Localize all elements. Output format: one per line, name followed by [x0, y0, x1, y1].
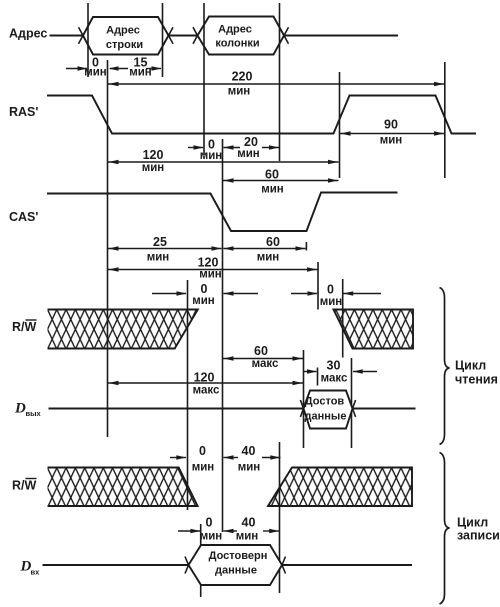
wire address mid	[169, 35, 198, 37]
reference line CAS fall	[222, 139, 224, 532]
svg-text:Адрес: Адрес	[9, 27, 47, 41]
svg-text:мин: мин	[84, 67, 107, 79]
svg-text:220: 220	[232, 70, 253, 84]
reference line dout end	[351, 358, 353, 448]
wire address lead	[50, 35, 84, 37]
svg-text:мин: мин	[200, 150, 223, 162]
reference line rw band2	[342, 279, 344, 358]
dimension 0 мин top	[66, 56, 107, 79]
RW write band2	[268, 468, 412, 507]
label Цикл записи	[457, 516, 500, 543]
svg-text:0: 0	[327, 283, 334, 297]
svg-text:вх: вх	[31, 568, 41, 577]
svg-text:R/W: R/W	[12, 479, 37, 493]
wire dout right	[353, 408, 416, 410]
svg-text:записи: записи	[457, 529, 500, 543]
label Цикл чтения	[455, 359, 498, 387]
svg-text:мин: мин	[199, 269, 222, 281]
svg-text:чтения: чтения	[455, 373, 498, 387]
svg-text:0: 0	[206, 516, 213, 530]
dimension 60 мин upper	[223, 168, 339, 196]
waveform RW write label	[12, 479, 37, 493]
data hexagon Достов данные	[300, 391, 355, 429]
svg-text:CAS': CAS'	[9, 210, 38, 224]
svg-text:Адрес: Адрес	[218, 24, 252, 36]
reference line RAS fall	[107, 60, 109, 437]
svg-text:60: 60	[254, 344, 268, 358]
svg-text:строки: строки	[106, 39, 143, 51]
dimension 220 мин	[108, 70, 445, 98]
svg-text:D: D	[14, 401, 26, 417]
svg-text:макс: макс	[252, 358, 279, 370]
svg-text:120: 120	[143, 148, 164, 162]
svg-text:мин: мин	[236, 531, 259, 543]
svg-text:90: 90	[384, 118, 398, 132]
brace read cycle	[440, 288, 450, 445]
svg-text:40: 40	[242, 516, 256, 530]
label D вх	[20, 559, 41, 577]
reference line din start	[200, 524, 202, 597]
tick line hexagon2 start	[203, 3, 205, 155]
reference line RAS rise	[339, 72, 341, 178]
reference line rw hold left	[187, 280, 189, 510]
dimension 60 мин cas	[224, 235, 306, 264]
svg-text:данные: данные	[305, 411, 347, 423]
svg-text:мин: мин	[257, 252, 280, 264]
svg-text:120: 120	[198, 256, 219, 270]
reference line write right	[279, 442, 281, 593]
svg-text:мин: мин	[237, 148, 260, 160]
RW write band1	[48, 468, 198, 507]
svg-text:Цикл: Цикл	[455, 359, 486, 373]
tick line hexagon2 end	[279, 3, 281, 161]
svg-text:Достов: Достов	[305, 396, 345, 408]
svg-text:60: 60	[265, 168, 279, 182]
tick line hexagon1 start	[87, 3, 89, 77]
dimension 0 мин rw left	[152, 282, 258, 307]
dimension 120 макс	[108, 371, 304, 397]
svg-text:мин: мин	[142, 162, 165, 174]
dimension 0 мин write	[170, 444, 214, 474]
svg-text:R/W: R/W	[12, 320, 37, 334]
svg-text:макс: макс	[193, 385, 220, 397]
svg-text:RAS': RAS'	[9, 105, 38, 119]
wire dout left	[49, 408, 304, 410]
svg-text:Цикл: Цикл	[457, 516, 488, 530]
svg-text:Достоверн: Достоверн	[209, 550, 268, 562]
dimension 90 мин	[340, 118, 445, 147]
dimension 60 макс	[223, 344, 304, 370]
svg-text:мин: мин	[228, 86, 251, 98]
svg-text:0: 0	[199, 444, 206, 458]
dimension 0 мин din	[178, 516, 222, 543]
dimension 40 мин write	[224, 444, 281, 474]
waveform RW read label	[12, 320, 37, 334]
svg-text:0: 0	[201, 282, 208, 296]
dimension 20 мин	[224, 135, 280, 160]
svg-text:60: 60	[266, 235, 280, 249]
dimension 120 мин lower	[108, 256, 318, 281]
dimension 15 мин	[109, 56, 162, 79]
dimension 0 мин ras-cas	[188, 138, 222, 163]
dimension 25 мин	[108, 235, 222, 264]
svg-text:вых: вых	[26, 409, 42, 418]
dimension 120 мин upper	[108, 148, 339, 174]
dimension 40 мин din	[224, 516, 280, 543]
svg-text:мин: мин	[261, 184, 284, 196]
svg-text:макс: макс	[321, 373, 348, 385]
svg-text:120: 120	[194, 371, 215, 385]
dimension 30 макс	[304, 359, 378, 385]
svg-text:мин: мин	[147, 252, 170, 264]
svg-text:40: 40	[242, 444, 256, 458]
wire din right	[282, 564, 412, 566]
data hexagon Достоверн данные	[185, 545, 286, 585]
svg-text:мин: мин	[238, 462, 261, 474]
label D вых	[14, 401, 42, 419]
svg-text:Адрес: Адрес	[106, 25, 140, 37]
RW read band2	[334, 310, 414, 349]
bus hexagon Адрес строки	[79, 17, 174, 55]
svg-text:20: 20	[244, 135, 258, 149]
svg-text:данные: данные	[215, 565, 257, 577]
reference line 30 right	[317, 368, 319, 386]
dimension 0 мин rw right	[291, 283, 381, 309]
reference line dout start	[303, 350, 305, 448]
tick cas rise	[305, 242, 307, 251]
brace write cycle	[440, 453, 450, 605]
reference line cas high	[317, 262, 319, 310]
bus hexagon Адрес колонки	[193, 17, 289, 55]
wire address right	[284, 35, 398, 37]
svg-text:мин: мин	[320, 296, 343, 308]
svg-text:мин: мин	[192, 462, 215, 474]
tick line hexagon1 end	[162, 3, 164, 77]
svg-text:мин: мин	[200, 531, 223, 543]
svg-text:30: 30	[327, 359, 341, 373]
svg-text:мин: мин	[192, 295, 215, 307]
svg-text:колонки: колонки	[215, 38, 259, 50]
svg-text:мин: мин	[129, 67, 152, 79]
wire din left	[43, 564, 189, 566]
reference line RAS fall2	[444, 62, 446, 178]
svg-text:25: 25	[153, 235, 167, 249]
svg-text:мин: мин	[380, 135, 403, 147]
RW read band1	[48, 310, 198, 349]
